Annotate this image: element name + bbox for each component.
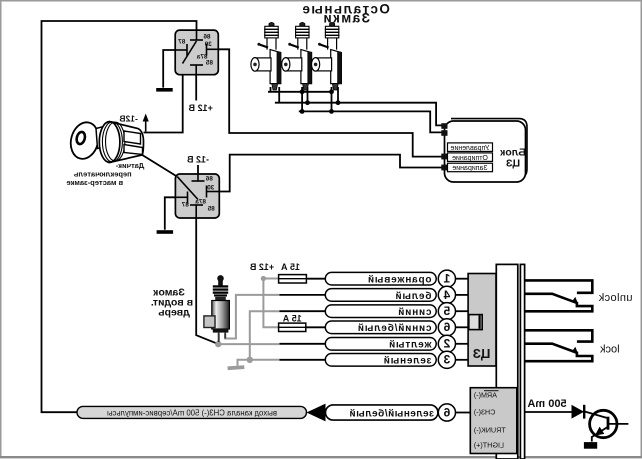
svg-text:85: 85 [205, 59, 213, 66]
svg-text:Отпирание: Отпирание [452, 155, 488, 162]
svg-text:зеленый: зеленый [383, 356, 432, 367]
svg-text:Управление: Управление [450, 145, 489, 152]
svg-text:87: 87 [178, 38, 186, 45]
svg-text:ЦЗ: ЦЗ [473, 346, 491, 361]
svg-text:6: 6 [443, 405, 450, 419]
svg-text:6: 6 [443, 320, 450, 334]
svg-text:86: 86 [205, 176, 213, 183]
svg-text:1: 1 [443, 272, 450, 286]
svg-text:-12 В: -12 В [186, 155, 209, 165]
svg-text:87: 87 [181, 201, 189, 208]
svg-text:Запирание: Запирание [452, 165, 487, 172]
svg-text:500 mA: 500 mA [527, 398, 566, 410]
svg-text:белый: белый [395, 290, 432, 302]
svg-text:ARM(-): ARM(-) [474, 391, 497, 400]
svg-text:86: 86 [203, 34, 211, 41]
svg-text:-12В: -12В [119, 113, 137, 123]
svg-text:lock: lock [600, 343, 620, 355]
svg-text:CH3(-): CH3(-) [474, 408, 496, 417]
svg-text:2: 2 [443, 337, 450, 351]
svg-text:30: 30 [204, 41, 212, 48]
svg-text:85: 85 [207, 206, 215, 213]
svg-text:ЦЗ: ЦЗ [505, 158, 520, 170]
svg-text:синий: синий [397, 307, 431, 318]
svg-text:+12 В: +12 В [249, 262, 274, 272]
svg-text:в мастер-замке: в мастер-замке [66, 178, 123, 187]
svg-text:синий/белый: синий/белый [357, 322, 431, 334]
svg-text:15 А: 15 А [282, 314, 302, 324]
svg-text:5: 5 [443, 304, 450, 318]
svg-text:30: 30 [207, 184, 215, 191]
svg-text:Замки: Замки [322, 11, 370, 26]
svg-text:LIGHT(+): LIGHT(+) [474, 440, 504, 449]
svg-text:зеленый/белый: зеленый/белый [349, 408, 434, 420]
svg-text:TRUNK(-): TRUNK(-) [474, 426, 506, 435]
svg-text:4: 4 [443, 288, 450, 302]
svg-text:unlock: unlock [598, 292, 632, 304]
svg-text:3: 3 [443, 353, 450, 367]
svg-text:+12 В: +12 В [188, 103, 213, 113]
svg-text:оранжевый: оранжевый [367, 275, 431, 286]
svg-text:выход канала СН3(-) 500 mA/сер: выход канала СН3(-) 500 mA/сервис-импуль… [107, 408, 277, 417]
svg-text:дверь: дверь [158, 307, 190, 319]
svg-text:15 А: 15 А [280, 262, 300, 272]
svg-text:желтый: желтый [388, 340, 432, 351]
svg-text:87a: 87a [195, 198, 206, 205]
